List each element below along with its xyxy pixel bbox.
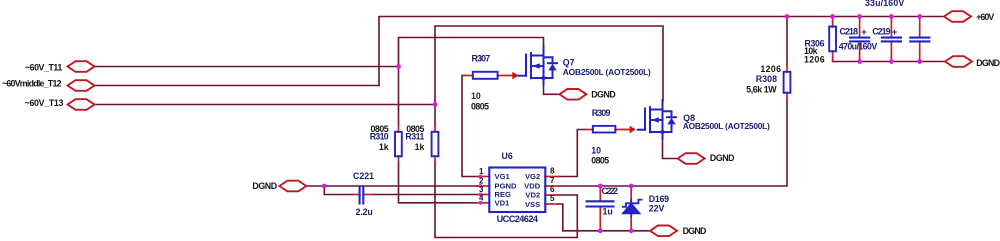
capacitor C221 — [360, 187, 364, 204]
wire T12 riser and +60V top rail — [379, 17, 944, 86]
junction T13/R311 — [433, 102, 438, 107]
resistor R306 — [829, 27, 836, 52]
svg-text:VG2: VG2 — [525, 172, 540, 181]
pin leads R306 — [832, 17, 834, 28]
pin stub C221 right — [365, 194, 373, 196]
wire DGND drop to REG net — [324, 186, 352, 195]
junction rail C218 — [857, 14, 862, 19]
transistor Q8 — [638, 100, 676, 139]
pin stub R309 left — [585, 129, 594, 131]
svg-text:+: + — [861, 27, 867, 38]
pin stubs U6 right — [545, 176, 559, 178]
wire T13 riser and rail to Q8 drain — [435, 26, 663, 105]
wire VDD pin 7 to R308 riser — [558, 100, 787, 186]
wire R308 top to +60V rail — [786, 17, 788, 65]
svg-text:0805: 0805 — [591, 155, 609, 165]
wire DGND left to PGND pin 2 — [306, 185, 477, 187]
wire DGND rail top right — [833, 61, 945, 63]
svg-text:33u/160V: 33u/160V — [865, 0, 904, 8]
svg-text:C222: C222 — [602, 186, 619, 196]
svg-text:VD2: VD2 — [525, 190, 540, 199]
pin stub R307 right — [498, 75, 513, 77]
svg-text:1k: 1k — [415, 142, 425, 152]
wire net T11 horizontal — [94, 66, 399, 68]
svg-text:UCC24624: UCC24624 — [497, 214, 539, 224]
capacitor C222 — [587, 201, 614, 206]
svg-text:22V: 22V — [649, 203, 665, 213]
pin stubs U6 left — [477, 176, 490, 178]
svg-text:DGND: DGND — [710, 153, 735, 163]
wire R310 bottom to VD1 pin 4 — [399, 163, 478, 203]
pin stub R307 left — [464, 75, 473, 77]
svg-text:C219: C219 — [872, 26, 890, 36]
pin arrow Q7 gate — [512, 72, 519, 79]
svg-text:AOB2500L (AOT2500L): AOB2500L (AOT2500L) — [563, 67, 651, 77]
pin stub R309 right — [615, 129, 630, 131]
junction rail R308 — [785, 14, 790, 19]
svg-text:10: 10 — [591, 146, 601, 156]
svg-text:2.2u: 2.2u — [356, 207, 373, 217]
junction dgnd C220 — [917, 59, 922, 64]
svg-text:U6: U6 — [502, 151, 513, 161]
svg-text:4: 4 — [479, 193, 484, 202]
port DGND right — [945, 56, 972, 67]
wire R311 bottom loop to VD2 pin 6 — [435, 163, 577, 238]
svg-text:~60Vmiddle_T12: ~60Vmiddle_T12 — [2, 78, 62, 88]
port ~60V_T11 — [68, 61, 95, 72]
wire T11 riser up to drain rail — [399, 38, 544, 67]
port DGND at Q7 — [559, 89, 586, 100]
svg-text:R311: R311 — [405, 131, 424, 141]
pin lead D169 top — [630, 186, 632, 202]
capacitor C220 — [910, 38, 929, 42]
wire Q8 source to DGND — [663, 139, 678, 159]
svg-text:VG1: VG1 — [495, 172, 511, 181]
wire T13 down to R311 top — [434, 105, 436, 126]
svg-text:DGND: DGND — [976, 58, 1000, 68]
capacitor C218 — [850, 38, 869, 42]
svg-text:6: 6 — [550, 185, 555, 194]
pin dots U6 left — [479, 175, 483, 179]
svg-text:R310: R310 — [370, 131, 389, 141]
svg-text:+: + — [892, 27, 898, 38]
pin stub R311 bottom — [434, 156, 436, 164]
port +60V — [944, 11, 971, 22]
pin stub C221 left — [351, 194, 358, 196]
pin leads C220 — [919, 17, 921, 38]
resistor R307 — [473, 72, 498, 79]
pin leads C218 — [859, 17, 861, 38]
junction VDD D169 — [629, 184, 634, 189]
svg-text:1u: 1u — [603, 207, 613, 217]
pin lead C222 bottom — [599, 207, 601, 231]
pin stub R310 bottom — [398, 156, 400, 164]
svg-text:VSS: VSS — [525, 200, 540, 209]
svg-text:Q7: Q7 — [563, 58, 575, 68]
wire VG2 pin 8 riser to R309 — [558, 130, 585, 177]
pin lead D169 bottom — [630, 214, 632, 231]
svg-text:~60V_T13: ~60V_T13 — [25, 98, 64, 108]
svg-text:+60V: +60V — [976, 12, 994, 22]
junction T11/R310 — [396, 64, 401, 69]
svg-text:8: 8 — [550, 167, 555, 176]
svg-text:1k: 1k — [379, 142, 389, 152]
svg-text:C221: C221 — [353, 171, 374, 181]
port DGND left — [279, 181, 306, 192]
wire Q7 source to DGND — [544, 84, 560, 94]
port ~60Vmiddle_T12 — [68, 80, 95, 91]
svg-text:R307: R307 — [472, 54, 491, 64]
svg-text:1206: 1206 — [760, 64, 781, 74]
svg-text:DGND: DGND — [252, 181, 277, 191]
junction rail R306 — [830, 14, 835, 19]
svg-text:5,6k 1W: 5,6k 1W — [746, 84, 777, 94]
svg-text:7: 7 — [550, 176, 555, 185]
pin stub R310 top — [398, 124, 400, 132]
svg-text:VDD: VDD — [524, 182, 541, 191]
junction rail C220 — [917, 14, 922, 19]
wire C221 right to REG pin 3 — [372, 194, 478, 196]
pin lead R308 top — [786, 63, 788, 72]
svg-text:~60V_T11: ~60V_T11 — [25, 63, 62, 73]
svg-text:AOB2500L (AOT2500L): AOB2500L (AOT2500L) — [683, 121, 770, 131]
zener diode D169 — [623, 200, 642, 216]
junction DGND D169 — [629, 228, 634, 233]
wire net T12 horizontal — [94, 85, 379, 87]
svg-text:C218: C218 — [840, 26, 859, 36]
wire net T13 horizontal — [94, 104, 435, 106]
junction dgnd C218 — [857, 59, 862, 64]
op-amp U6 UCC24624 body — [489, 168, 545, 213]
svg-text:470u/160V: 470u/160V — [839, 42, 878, 52]
svg-text:10: 10 — [471, 91, 481, 101]
svg-text:R309: R309 — [592, 108, 611, 118]
junction DGND C222 — [598, 228, 603, 233]
pin lead R308 bottom — [786, 93, 788, 102]
capacitor C219 — [882, 38, 901, 42]
wire VSS pin 5 to DGND run — [558, 204, 650, 231]
port ~60V_T13 — [68, 99, 95, 110]
transistor Q7 — [519, 46, 557, 85]
pin arrow Q8 gate — [630, 126, 637, 133]
resistor R308 — [784, 72, 791, 93]
pin lead C222 top — [599, 186, 601, 201]
svg-text:0805: 0805 — [471, 101, 489, 111]
resistor R309 — [593, 126, 616, 133]
svg-text:1206: 1206 — [804, 54, 825, 64]
svg-text:5: 5 — [550, 194, 555, 203]
svg-text:1: 1 — [479, 167, 484, 176]
wire T11 down to R310 top — [398, 67, 400, 126]
svg-text:R308: R308 — [756, 74, 777, 84]
svg-text:DGND: DGND — [683, 226, 707, 236]
port DGND bottom — [650, 226, 677, 237]
junction VDD C222 — [598, 184, 603, 189]
junction rail C219 — [889, 14, 894, 19]
port DGND at Q8 — [678, 153, 705, 164]
junction dgnd C219 — [889, 59, 894, 64]
svg-text:VD1: VD1 — [495, 199, 511, 208]
resistor R311 — [432, 132, 439, 157]
resistor R310 — [395, 132, 402, 157]
svg-text:DGND: DGND — [591, 89, 616, 99]
pin stub R311 top — [434, 124, 436, 132]
junction DGND left — [322, 184, 327, 189]
wire VG1 pin 1 riser to R307 — [462, 76, 478, 177]
pin leads C219 — [890, 17, 892, 38]
